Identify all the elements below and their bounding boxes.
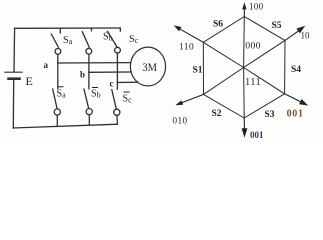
switch Sa- blade <box>53 89 57 108</box>
svg-text:Sb: Sb <box>91 89 101 100</box>
wire phase c horizontal <box>117 81 137 83</box>
svg-text:c: c <box>110 79 114 89</box>
switch Sc stub <box>119 28 121 31</box>
spoke center to upper-right <box>244 40 285 67</box>
hexagon edge T-UL <box>203 17 244 43</box>
wire Sb- to bottom bus <box>88 115 90 126</box>
hexagon edge UR-T <box>244 17 285 41</box>
switch Sc blade <box>108 31 117 46</box>
wire left vertical top (battery +) <box>13 28 16 71</box>
svg-text:001: 001 <box>250 130 264 140</box>
hexagon edge B-LR <box>244 94 284 118</box>
battery E long plate <box>5 71 22 73</box>
switch Sb blade <box>82 32 89 48</box>
wire phase b horizontal <box>89 71 131 73</box>
svg-text:Sb: Sb <box>103 32 113 43</box>
svg-text:Sc: Sc <box>129 34 139 45</box>
spoke center to upper-left <box>203 42 243 67</box>
wire Sa circle to node a <box>57 54 59 63</box>
switch Sc contact circle <box>115 47 121 53</box>
spoke center to lower-left <box>204 68 244 95</box>
arrow vector 001 down <box>243 118 245 129</box>
switch Sa contact circle <box>55 49 61 55</box>
spoke center to top <box>243 17 246 68</box>
svg-text:111: 111 <box>245 77 261 88</box>
wire node c down <box>116 83 118 90</box>
wire top bus <box>15 27 121 29</box>
wire node b down <box>88 72 90 89</box>
switch Sa stub <box>59 28 61 33</box>
svg-text:3M: 3M <box>142 60 157 74</box>
wire left vertical bottom (battery -) <box>12 79 14 128</box>
hexagon edge LR-UR <box>284 40 286 93</box>
svg-text:110: 110 <box>179 43 194 53</box>
arrow vector 001 lower-right <box>285 94 302 102</box>
svg-text:Sa: Sa <box>57 89 67 100</box>
arrow vector 100 up <box>243 8 245 17</box>
svg-text:Sc: Sc <box>123 94 133 105</box>
svg-text:010: 010 <box>173 115 188 125</box>
svg-text:S1: S1 <box>193 66 203 76</box>
svg-text:100: 100 <box>249 1 264 11</box>
wire phase a horizontal <box>58 62 131 64</box>
spoke center to bottom <box>243 68 246 119</box>
switch Sb stub <box>91 28 93 31</box>
arrow vector 010 lower-left <box>182 94 204 103</box>
svg-text:S5: S5 <box>272 21 282 31</box>
switch Sc- blade <box>112 90 117 109</box>
arrow vector 10 upper-right <box>285 31 299 41</box>
hexagon edge LL-B <box>204 94 245 118</box>
svg-text:S3: S3 <box>265 110 275 120</box>
arrow vector 110 upper-left <box>180 29 204 43</box>
svg-text:b: b <box>80 70 85 80</box>
switch Sc- contact circle <box>114 109 120 115</box>
switch Sb- contact circle <box>86 109 92 115</box>
wire bottom bus <box>13 124 117 128</box>
wire Sb circle to node b <box>88 54 90 72</box>
svg-text:S6: S6 <box>213 20 223 30</box>
switch Sa blade <box>51 34 58 47</box>
spoke center to lower-right <box>244 68 285 94</box>
hexagon and arrows <box>203 17 285 119</box>
svg-text:E: E <box>26 74 33 88</box>
hexagon edge UL-LL <box>202 42 204 94</box>
svg-text:000: 000 <box>245 42 260 52</box>
switch Sb- blade <box>84 89 89 108</box>
motor 3M circle <box>130 47 165 86</box>
wire node a down <box>57 63 59 89</box>
svg-text:001: 001 <box>287 108 304 119</box>
switch Sb contact circle <box>86 48 92 54</box>
wire Sc- to bottom bus <box>116 115 119 124</box>
switch Sa- contact circle <box>54 109 60 115</box>
wire Sc circle to node c <box>116 53 118 82</box>
svg-text:S2: S2 <box>212 109 222 119</box>
svg-text:Sa: Sa <box>63 35 73 46</box>
battery E short plate <box>9 77 20 80</box>
wire Sa- to bottom bus <box>56 115 58 126</box>
svg-text:a: a <box>44 60 49 70</box>
svg-text:S4: S4 <box>291 65 301 75</box>
svg-text:10: 10 <box>301 31 311 41</box>
